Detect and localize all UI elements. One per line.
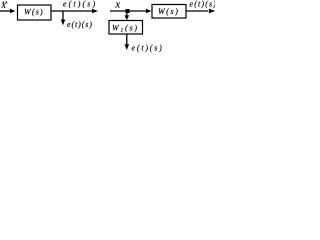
svg-text:e(t)(s): e(t)(s) — [63, 0, 97, 9]
block W(s) left — [18, 5, 52, 20]
svg-text:W1(s): W1(s) — [112, 24, 139, 34]
wire (right top output) — [186, 10, 208, 12]
wire (right bottom output down) — [126, 34, 128, 45]
svg-text:e(t)(s): e(t)(s) — [190, 0, 216, 9]
svg-text:x: x — [115, 0, 121, 11]
wire (right input) — [110, 10, 146, 12]
svg-text:W(s): W(s) — [24, 8, 44, 17]
wire (left input) — [0, 10, 11, 12]
wire (left branch down) — [62, 11, 64, 20]
block W1(s) right bottom — [109, 21, 143, 35]
wire (left output horizontal) — [51, 10, 92, 12]
svg-text:W(s): W(s) — [158, 7, 180, 16]
block W(s) right top — [152, 5, 186, 19]
svg-text:e(t)(s): e(t)(s) — [67, 20, 93, 29]
wire (branch down to W1) — [126, 11, 128, 16]
node junction dot — [126, 9, 130, 13]
svg-text:e(t)(s): e(t)(s) — [132, 44, 164, 53]
